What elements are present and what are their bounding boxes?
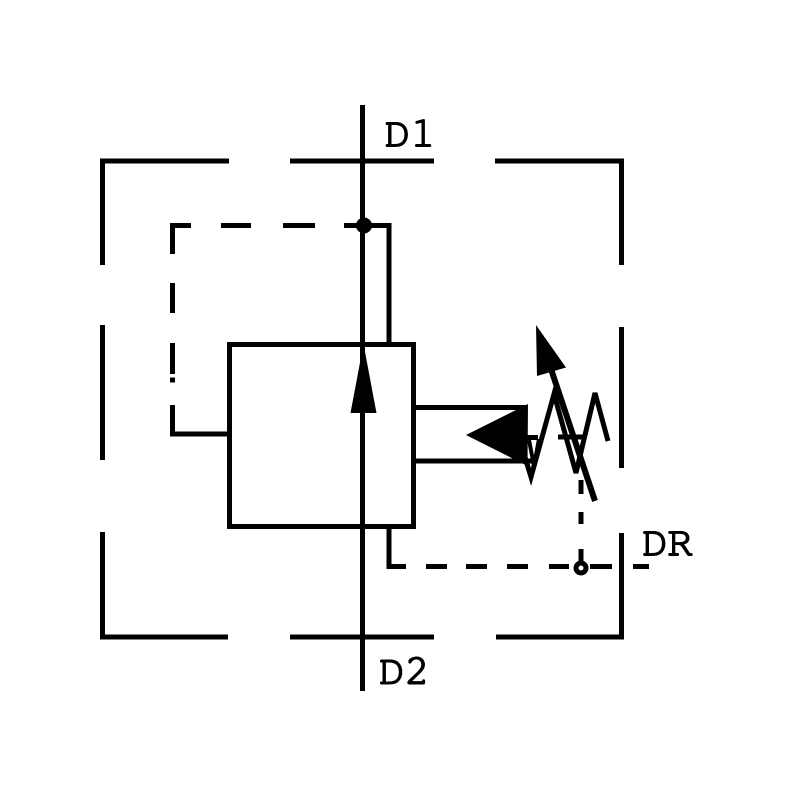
outer subplate border dashed frame, right side bbox=[619, 159, 624, 640]
drain line dashed vertical from spring bbox=[579, 480, 584, 561]
adjustable spring zigzag bbox=[518, 393, 608, 477]
pilot pressure arrow pointing left at valve bbox=[466, 404, 528, 466]
junction node on D1 line bbox=[356, 218, 372, 234]
port label D1 bbox=[386, 119, 432, 147]
adjustment arrow head bbox=[536, 325, 566, 376]
wire top rail to spring bbox=[416, 405, 527, 410]
main flow line D1-D2 vertical wire bbox=[360, 105, 365, 691]
drain port circle DR bbox=[576, 563, 586, 573]
outer subplate border dashed frame, bottom side bbox=[100, 635, 624, 640]
outer subplate border dashed frame, top side bbox=[100, 159, 624, 164]
wire bottom rail to spring bbox=[416, 459, 533, 464]
drain wire from valve bottom, solid elbow bbox=[389, 529, 406, 567]
pilot line dashed, top run from corner to node bbox=[173, 226, 366, 255]
valve body square bbox=[230, 345, 414, 527]
spring inner vee bbox=[529, 439, 539, 466]
spring tick left bbox=[524, 435, 538, 440]
adjustment arrow shaft bbox=[551, 369, 595, 501]
port label DR bbox=[643, 531, 693, 556]
drain line dashed horizontal to DR bbox=[426, 564, 649, 569]
outer subplate border dashed frame, left side bbox=[100, 159, 105, 640]
port label D2 bbox=[380, 657, 425, 685]
flow arrow inside valve body bbox=[351, 344, 377, 413]
pilot line dashed, left run down to valve bbox=[173, 283, 229, 434]
spring tick right bbox=[558, 435, 585, 440]
wire from node to valve top bbox=[364, 226, 389, 345]
